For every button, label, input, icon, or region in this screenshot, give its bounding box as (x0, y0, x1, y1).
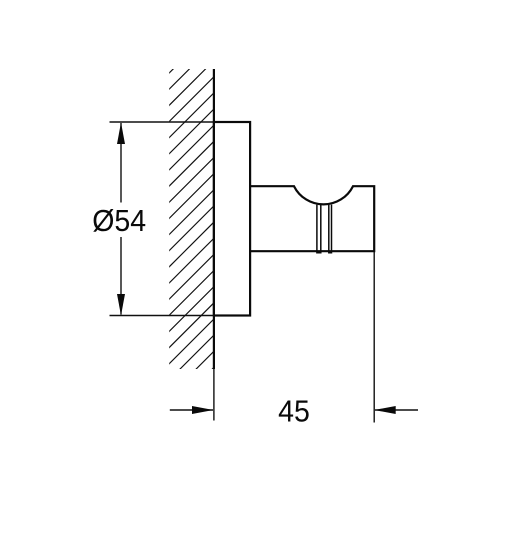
arrowhead up (Ø54 top) (117, 123, 125, 145)
svg-text:45: 45 (278, 394, 310, 428)
svg-text:Ø54: Ø54 (92, 204, 146, 238)
extension line bottom (diameter) (110, 315, 214, 317)
wall face line (213, 69, 215, 369)
hook body outline (250, 186, 374, 251)
extension line hook tip (45 dim) (373, 252, 375, 423)
dimension line 45 (left tail) (170, 409, 213, 411)
extension line wall face (45 dim) (213, 369, 215, 421)
arrowhead left (45 right) (374, 406, 395, 414)
dimension line Ø54 (vertical, broken for text) (120, 123, 122, 315)
wall hatching (150, 24, 218, 431)
dimension line 45 (right tail) (375, 409, 418, 411)
extension line top (diameter) (110, 121, 214, 123)
hook neck groove lines (317, 205, 332, 253)
arrowhead right (45 left) (192, 406, 213, 414)
mounting plate outline (214, 122, 250, 316)
arrowhead down (Ø54 bottom) (117, 294, 125, 316)
